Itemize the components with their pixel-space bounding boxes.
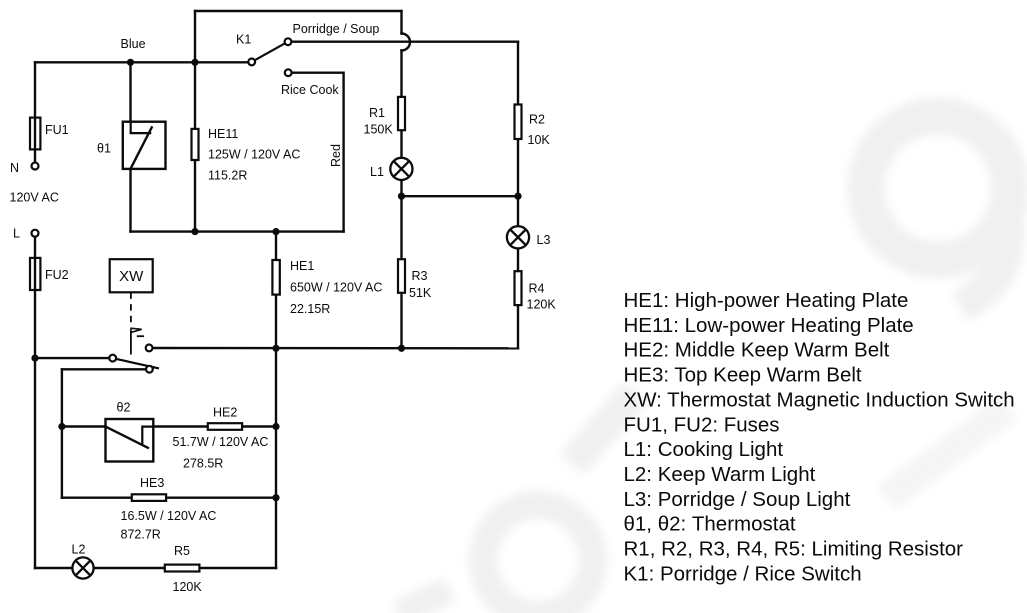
- wire theta1 bottom: [129, 169, 131, 232]
- svg-text:L1: L1: [370, 165, 384, 179]
- svg-text:150K: 150K: [364, 123, 394, 137]
- lamp L3: [507, 226, 529, 248]
- resistor R4: [515, 271, 522, 305]
- svg-text:R1, R2, R3, R4, R5: Limiting R: R1, R2, R3, R4, R5: Limiting Resistor: [624, 538, 964, 561]
- resistor HE2: [208, 423, 242, 430]
- svg-text:HE2: Middle Keep Warm Belt: HE2: Middle Keep Warm Belt: [624, 339, 890, 362]
- wire Rice Cook branch: [292, 73, 344, 232]
- svg-text:Blue: Blue: [121, 37, 146, 51]
- contact K1 porridge: [285, 38, 292, 45]
- svg-text:120V AC: 120V AC: [10, 191, 59, 205]
- svg-text:51K: 51K: [409, 286, 432, 300]
- svg-text:10K: 10K: [528, 133, 551, 147]
- resistor HE3: [132, 494, 166, 501]
- svg-text:Red: Red: [329, 144, 343, 167]
- contact XW upper: [146, 345, 153, 352]
- wire theta1 top: [129, 62, 131, 121]
- XW actuator dash: [137, 335, 144, 337]
- svg-text:HE1: High-power Heating Plate: HE1: High-power Heating Plate: [624, 289, 909, 312]
- thermostat theta2: [106, 419, 154, 462]
- svg-text:R2: R2: [529, 113, 545, 127]
- svg-text:K1: K1: [236, 33, 251, 47]
- svg-text:Porridge / Soup: Porridge / Soup: [293, 22, 380, 36]
- svg-text:L3: Porridge / Soup Light: L3: Porridge / Soup Light: [624, 488, 851, 511]
- svg-text:51.7W / 120V AC: 51.7W / 120V AC: [173, 435, 269, 449]
- svg-text:FU1, FU2: Fuses: FU1, FU2: Fuses: [624, 413, 780, 436]
- svg-text:R5: R5: [174, 544, 190, 558]
- legend: [624, 289, 1015, 585]
- wire bottom horizontal: [35, 567, 276, 569]
- junction L/pivot: [31, 355, 38, 362]
- XW box U1: [110, 259, 153, 292]
- XW actuator stem: [130, 331, 132, 355]
- svg-text:125W / 120V AC: 125W / 120V AC: [208, 148, 300, 162]
- contact K1 rice: [285, 69, 292, 76]
- svg-text:120K: 120K: [173, 580, 203, 594]
- junction HE2 right: [272, 423, 279, 430]
- svg-text:HE11: HE11: [208, 127, 238, 141]
- junction L1/R3: [398, 193, 405, 200]
- terminal N: [32, 163, 39, 170]
- svg-text:120K: 120K: [527, 298, 557, 312]
- resistor R3: [398, 259, 405, 293]
- lamp L2: [72, 557, 93, 578]
- svg-text:115.2R: 115.2R: [208, 169, 247, 183]
- svg-text:L1: Cooking Light: L1: Cooking Light: [624, 438, 784, 461]
- svg-text:XW: XW: [119, 268, 144, 285]
- wire theta2 left: [62, 425, 106, 427]
- svg-text:872.7R: 872.7R: [121, 528, 161, 542]
- wire box bottom horizontal: [131, 230, 344, 232]
- wire HE3 horizontal: [62, 497, 276, 499]
- switch K1 arm: [255, 43, 286, 60]
- svg-text:16.5W / 120V AC: 16.5W / 120V AC: [121, 509, 217, 523]
- wire left inner vertical: [61, 369, 63, 497]
- svg-text:L2: L2: [72, 543, 86, 557]
- svg-text:L2: Keep Warm Light: L2: Keep Warm Light: [624, 463, 816, 486]
- contact K1 common: [248, 59, 255, 66]
- wire mid link L1 to R2 branch: [402, 195, 519, 197]
- wire vertical above hop: [400, 11, 402, 34]
- wire lower contact horizontal: [62, 368, 146, 370]
- svg-text:K1: Porridge / Rice Switch: K1: Porridge / Rice Switch: [624, 562, 862, 585]
- svg-text:278.5R: 278.5R: [183, 457, 223, 471]
- junction HE11 bottom: [191, 228, 198, 235]
- svg-text:HE1: HE1: [290, 259, 314, 273]
- terminal L: [32, 230, 39, 237]
- contact XW pivot: [109, 355, 116, 362]
- wire top horizontal: [195, 10, 402, 12]
- junction R3 bottom: [398, 345, 405, 352]
- svg-text:650W / 120V AC: 650W / 120V AC: [290, 281, 382, 295]
- wire R2 L3 R4 branch vertical: [517, 42, 519, 349]
- svg-text:θ1: θ1: [97, 142, 111, 156]
- fuse FU2: [30, 258, 40, 290]
- svg-text:XW: Thermostat Magnetic Induct: XW: Thermostat Magnetic Induction Switch: [624, 388, 1015, 411]
- thermostat theta1: [123, 122, 166, 170]
- fuse FU1: [30, 118, 40, 150]
- wire Porridge/Soup horizontal: [291, 41, 518, 43]
- XW actuator flag: [131, 328, 142, 332]
- svg-text:L: L: [13, 227, 20, 241]
- junction HE1 top: [272, 228, 279, 235]
- svg-text:R1: R1: [369, 106, 385, 120]
- svg-text:HE3: HE3: [140, 476, 164, 490]
- wire theta2 to HE2 right: [153, 425, 276, 427]
- svg-text:N: N: [10, 161, 19, 175]
- svg-text:L3: L3: [537, 233, 551, 247]
- resistor R5: [165, 565, 200, 572]
- svg-text:22.15R: 22.15R: [290, 302, 330, 316]
- wire Blue net horizontal: [35, 61, 248, 63]
- contact XW lower: [146, 366, 153, 373]
- wire R1 L1 R3 branch vertical: [400, 51, 402, 349]
- resistor HE11: [192, 129, 199, 160]
- svg-text:θ1, θ2: Thermostat: θ1, θ2: Thermostat: [624, 513, 796, 536]
- junction R2/L3: [514, 193, 521, 200]
- svg-text:Rice Cook: Rice Cook: [281, 83, 339, 97]
- junction HE3 right: [272, 494, 279, 501]
- resistor HE1: [272, 260, 279, 295]
- junction HE1 bottom: [272, 345, 279, 352]
- wire middle horizontal net: [153, 347, 518, 350]
- wire hop over Porridge/Soup wire: [402, 34, 411, 51]
- svg-text:FU2: FU2: [45, 268, 69, 282]
- junction theta2 left: [58, 423, 65, 430]
- svg-text:FU1: FU1: [45, 123, 69, 137]
- svg-text:R4: R4: [529, 282, 545, 296]
- wire right vertical HE1/HE2/HE3/R5: [275, 232, 277, 568]
- junction Blue/theta1: [127, 59, 134, 66]
- junction Blue/HE11: [191, 59, 198, 66]
- lamp L1: [390, 158, 412, 180]
- wire pivot horizontal: [35, 357, 109, 359]
- svg-text:HE3: Top Keep Warm Belt: HE3: Top Keep Warm Belt: [624, 364, 862, 387]
- resistor R2: [515, 105, 522, 140]
- svg-text:R3: R3: [412, 269, 428, 283]
- svg-text:HE11: Low-power Heating Plate: HE11: Low-power Heating Plate: [624, 314, 914, 337]
- svg-text:HE2: HE2: [213, 406, 237, 420]
- XW dashed link: [130, 292, 132, 325]
- wire L branch with FU2: [34, 237, 36, 568]
- resistor R1: [398, 97, 405, 130]
- svg-text:θ2: θ2: [117, 401, 131, 415]
- wire HE11 branch vertical: [194, 11, 196, 232]
- wire N branch with FU1: [34, 62, 36, 162]
- switch XW arm: [116, 359, 159, 369]
